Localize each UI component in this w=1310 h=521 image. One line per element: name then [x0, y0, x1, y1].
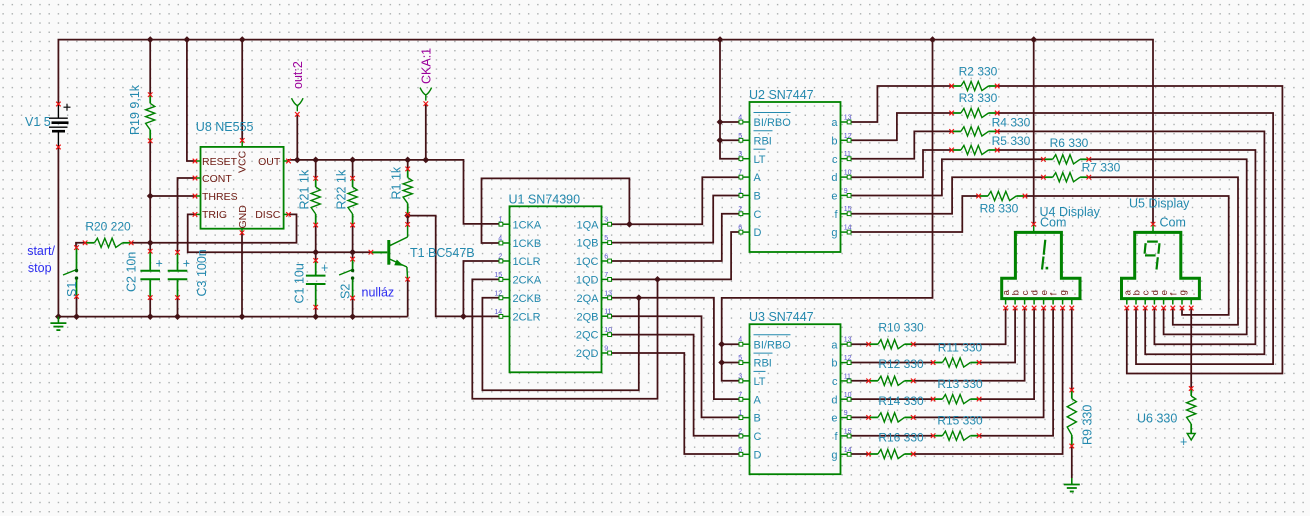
- svg-text:U5 Display: U5 Display: [1129, 197, 1190, 211]
- junction gnd-S2: [350, 314, 355, 319]
- svg-text:V1 5: V1 5: [25, 115, 51, 129]
- svg-text:start/: start/: [27, 244, 55, 258]
- svg-text:2CKA: 2CKA: [513, 275, 542, 287]
- svg-text:9: 9: [604, 346, 608, 353]
- junction gnd-U8: [239, 314, 244, 319]
- svg-text:R21 1k: R21 1k: [298, 169, 312, 209]
- svg-text:2QB: 2QB: [576, 311, 598, 323]
- junction OUT-R1: [405, 157, 410, 162]
- svg-text:R9 330: R9 330: [1081, 405, 1095, 445]
- wire TRIG net: [188, 214, 371, 260]
- svg-text:R15 330: R15 330: [937, 414, 983, 428]
- svg-text:1: 1: [738, 410, 742, 417]
- counter U1 SN74390: [494, 192, 612, 372]
- svg-text:C2 10n: C2 10n: [125, 252, 139, 292]
- junction rail-RESET: [184, 37, 189, 42]
- svg-text:15: 15: [844, 206, 852, 213]
- svg-text:3: 3: [738, 373, 742, 380]
- wire U5 dp to U6: [1190, 307, 1192, 388]
- svg-text:13: 13: [604, 290, 612, 297]
- svg-text:12: 12: [844, 355, 852, 362]
- resistor R7: [1041, 161, 1121, 182]
- svg-text:S2: S2: [339, 284, 353, 299]
- svg-text:2QD: 2QD: [576, 348, 599, 360]
- svg-text:S1: S1: [65, 282, 79, 297]
- wire 1QD net (to U2.D and 2CKA): [472, 232, 739, 399]
- junction 2QA: [636, 295, 641, 300]
- svg-text:LT: LT: [754, 154, 766, 166]
- resistor R12: [866, 357, 924, 385]
- svg-text:U1 SN74390: U1 SN74390: [509, 192, 581, 206]
- svg-text:R7 330: R7 330: [1082, 161, 1121, 175]
- junction 1QD: [655, 277, 660, 282]
- svg-text:e: e: [831, 191, 837, 203]
- wire R9 to ground: [1071, 446, 1073, 478]
- svg-text:12: 12: [494, 290, 502, 297]
- svg-text:U2 SN7447: U2 SN7447: [749, 88, 814, 102]
- svg-text:B: B: [754, 191, 761, 203]
- svg-text:R19 9,1k: R19 9,1k: [128, 84, 142, 135]
- switch S2: [339, 257, 355, 301]
- svg-text:13: 13: [844, 115, 852, 122]
- svg-text:VCC: VCC: [237, 150, 249, 173]
- svg-text:c: c: [832, 154, 838, 166]
- junction gnd-C2: [148, 314, 153, 319]
- svg-text:THRES: THRES: [202, 191, 238, 203]
- op-amp U8 NE555 timer: [193, 120, 291, 235]
- junction CLR: [461, 314, 466, 319]
- svg-text:DISC: DISC: [255, 209, 281, 221]
- svg-text:C: C: [754, 431, 762, 443]
- svg-text:1CKB: 1CKB: [513, 238, 542, 250]
- ground main ground: [50, 317, 66, 331]
- svg-text:C: C: [754, 209, 762, 221]
- junction 1QA: [627, 222, 632, 227]
- svg-text:+: +: [321, 261, 328, 275]
- svg-text:12: 12: [844, 133, 852, 140]
- svg-text:R10 330: R10 330: [878, 321, 924, 335]
- svg-text:.: .: [1067, 293, 1078, 296]
- resistor R14: [866, 394, 924, 422]
- svg-text:R20 220: R20 220: [85, 220, 131, 234]
- junction U3-RBI: [719, 360, 724, 365]
- svg-text:R6 330: R6 330: [1050, 136, 1089, 150]
- svg-text:CKA:1: CKA:1: [419, 48, 433, 84]
- resistor R21: [298, 169, 321, 227]
- wire U3 segment b net: [851, 308, 1015, 362]
- svg-text:b: b: [831, 358, 837, 370]
- wire S1 to R20 net: [76, 243, 85, 248]
- junction THRES-R20: [148, 240, 153, 245]
- decoder U2 (tens decoder): [738, 88, 851, 252]
- svg-text:TRIG: TRIG: [202, 209, 227, 221]
- svg-text:2CLR: 2CLR: [513, 312, 541, 324]
- svg-text:c: c: [832, 376, 838, 388]
- wire THRES/DISC net: [131, 141, 296, 251]
- wire 2QC net to U3.C: [611, 335, 739, 436]
- net jumper out:2: [291, 61, 305, 116]
- svg-text:d: d: [831, 394, 837, 406]
- wire U2 segment d net: [851, 150, 1255, 344]
- capacitor C3: [168, 249, 209, 300]
- display U4 (digit 1.): [1001, 205, 1101, 310]
- svg-text:2: 2: [738, 428, 742, 435]
- svg-text:OUT: OUT: [258, 156, 281, 168]
- junction rail-R19: [148, 37, 153, 42]
- svg-text:14: 14: [844, 447, 852, 454]
- svg-text:e: e: [831, 413, 837, 425]
- svg-text:C3 100n: C3 100n: [195, 249, 209, 296]
- junction U2-BIRBO: [717, 119, 722, 124]
- ground R9 ground: [1064, 478, 1080, 492]
- wire U4 dp to R9: [1071, 308, 1073, 390]
- wire U3 segment g net: [851, 308, 1063, 454]
- wire U2 segment c net: [851, 131, 1264, 354]
- wire U2 segment b net: [851, 113, 1273, 364]
- svg-text:R22 1k: R22 1k: [334, 169, 348, 209]
- svg-text:b: b: [831, 135, 837, 147]
- junction rail-U3: [930, 37, 935, 42]
- svg-text:g: g: [831, 227, 837, 239]
- svg-text:LT: LT: [754, 376, 766, 388]
- svg-text:1QB: 1QB: [576, 238, 598, 250]
- wire U3 segment e net: [851, 308, 1044, 417]
- capacitor C1: [293, 258, 329, 309]
- svg-text:11: 11: [604, 309, 611, 316]
- battery V1: [25, 102, 71, 150]
- svg-text:1: 1: [738, 188, 742, 195]
- wire OUT net (555 output to 1CKA): [288, 104, 499, 224]
- wire U2 segment a net: [851, 86, 1282, 374]
- switch S1: [63, 245, 79, 298]
- svg-text:R11 330: R11 330: [938, 340, 983, 354]
- svg-text:Com: Com: [1160, 215, 1186, 229]
- transistor T1: [369, 222, 475, 281]
- svg-text:1: 1: [498, 217, 502, 224]
- svg-text:RESET: RESET: [202, 156, 238, 168]
- resistor R19: [128, 84, 155, 143]
- resistor R15: [931, 414, 983, 441]
- svg-text:g: g: [831, 449, 837, 461]
- svg-text:1CLR: 1CLR: [513, 256, 541, 268]
- wire U2 segment f net: [851, 177, 1238, 325]
- svg-text:R8 330: R8 330: [980, 202, 1019, 216]
- wire ground rail net: [58, 147, 407, 317]
- wire U2 segment g net: [851, 196, 1229, 315]
- wire 2QB net to U3.B: [611, 316, 739, 417]
- svg-text:6: 6: [604, 254, 608, 261]
- resistor R20: [83, 220, 134, 248]
- wire VCC +5V rail net: [58, 40, 1153, 381]
- svg-text:2: 2: [738, 206, 742, 213]
- svg-text:1QD: 1QD: [576, 275, 599, 287]
- svg-text:R12 330: R12 330: [878, 357, 924, 371]
- wire U2 segment e net: [851, 159, 1247, 334]
- label start/stop: [27, 244, 55, 275]
- wire 1QB net to U2.B: [611, 196, 739, 243]
- svg-text:3: 3: [604, 217, 608, 224]
- svg-text:1CKA: 1CKA: [513, 219, 542, 231]
- svg-text:4: 4: [498, 236, 502, 243]
- svg-text:T1 BC547B: T1 BC547B: [410, 246, 475, 260]
- junction rail-VCC-U8: [240, 37, 245, 42]
- svg-text:2QA: 2QA: [576, 293, 599, 305]
- svg-text:5: 5: [604, 235, 608, 242]
- svg-text:9: 9: [844, 410, 848, 417]
- svg-text:A: A: [754, 394, 762, 406]
- junction rail-U2: [717, 37, 722, 42]
- resistor R22: [334, 169, 357, 227]
- svg-text:1QA: 1QA: [576, 219, 599, 231]
- resistor R6: [1041, 136, 1091, 164]
- svg-text:2QC: 2QC: [576, 330, 599, 342]
- resistor R2: [949, 65, 999, 91]
- resistor R1: [390, 166, 413, 217]
- wire 2QD net to U3.D: [611, 353, 739, 454]
- svg-text:7: 7: [738, 170, 742, 177]
- svg-text:10: 10: [604, 327, 612, 334]
- resistor R8: [976, 191, 1027, 215]
- svg-text:R13 330: R13 330: [937, 377, 983, 391]
- junction TRIG-S2: [350, 250, 355, 255]
- junction TRIG-C1: [313, 250, 318, 255]
- wire 1QC net to U2.C: [611, 214, 739, 261]
- svg-text:U3 SN7447: U3 SN7447: [749, 310, 814, 324]
- svg-text:U8 NE555: U8 NE555: [196, 120, 254, 134]
- svg-text:1QC: 1QC: [576, 256, 599, 268]
- wire U3 segment d net: [851, 308, 1034, 399]
- resistor R11: [931, 340, 983, 367]
- svg-text:C1 10u: C1 10u: [293, 263, 307, 303]
- junction OUT-CKA1: [423, 157, 428, 162]
- svg-text:14: 14: [494, 309, 502, 316]
- svg-text:R2 330: R2 330: [959, 65, 998, 79]
- svg-text:6: 6: [738, 447, 742, 454]
- svg-text:R16 330: R16 330: [878, 430, 924, 444]
- junction gnd-C3: [175, 314, 180, 319]
- svg-text:4: 4: [738, 115, 742, 122]
- wire U3 segment f net: [851, 308, 1053, 435]
- resistor R3: [949, 91, 999, 117]
- svg-text:stop: stop: [28, 261, 52, 275]
- svg-text:CONT: CONT: [202, 173, 232, 185]
- junction OUT-R22: [350, 157, 355, 162]
- svg-text:15: 15: [494, 272, 502, 279]
- resistor R4: [949, 116, 1030, 137]
- svg-text:11: 11: [844, 373, 851, 380]
- resistor R9: [1067, 388, 1094, 449]
- svg-text:.: .: [1187, 293, 1198, 296]
- resistor R13: [931, 377, 983, 404]
- resistor U6 with +V arrow: [1137, 386, 1196, 449]
- junction U2-RBI: [717, 138, 722, 143]
- svg-text:R14 330: R14 330: [878, 394, 924, 408]
- svg-text:15: 15: [844, 428, 852, 435]
- svg-text:nulláz: nulláz: [362, 286, 395, 300]
- svg-text:2: 2: [498, 254, 502, 261]
- svg-text:RBI: RBI: [754, 135, 772, 147]
- svg-text:A: A: [754, 172, 762, 184]
- resistor R10: [866, 321, 924, 349]
- wire U3 segment c net: [851, 308, 1025, 380]
- wire 2QA net (to U3.A and 2CKB): [482, 298, 739, 399]
- svg-text:5: 5: [738, 133, 742, 140]
- wire U3 segment a net: [851, 308, 1006, 344]
- svg-text:+: +: [156, 257, 163, 271]
- svg-text:14: 14: [844, 225, 852, 232]
- svg-text:5: 5: [738, 355, 742, 362]
- junction OUT-out2: [295, 157, 300, 162]
- svg-text:7: 7: [738, 392, 742, 399]
- svg-text:9: 9: [844, 188, 848, 195]
- capacitor C2: [125, 249, 163, 300]
- svg-text:out:2: out:2: [291, 61, 305, 89]
- resistor R5: [949, 134, 1030, 154]
- junction rail-U4com: [1031, 37, 1036, 42]
- svg-text:+: +: [183, 257, 190, 271]
- svg-text:D: D: [754, 449, 762, 461]
- display U5 (digit 9): [1122, 197, 1200, 311]
- svg-text:10: 10: [844, 170, 852, 177]
- junction gnd-C1: [313, 314, 318, 319]
- svg-text:BI/RBO: BI/RBO: [754, 117, 792, 129]
- svg-text:10: 10: [844, 392, 852, 399]
- svg-text:2CKB: 2CKB: [513, 293, 542, 305]
- wire CONT net: [178, 178, 196, 252]
- svg-text:a: a: [831, 339, 838, 351]
- junction gnd-battery: [56, 314, 61, 319]
- svg-text:R3 330: R3 330: [959, 91, 998, 105]
- junction THRES: [148, 193, 153, 198]
- svg-text:GND: GND: [237, 205, 249, 229]
- svg-text:R1 1k: R1 1k: [390, 166, 404, 199]
- svg-text:a: a: [831, 117, 838, 129]
- svg-text:R4 330: R4 330: [992, 116, 1031, 130]
- decoder U3 (ones decoder): [738, 310, 851, 474]
- svg-text:BI/RBO: BI/RBO: [754, 339, 792, 351]
- svg-text:R5 330: R5 330: [992, 134, 1031, 148]
- svg-text:d: d: [831, 172, 837, 184]
- svg-text:3: 3: [738, 151, 742, 158]
- svg-text:11: 11: [844, 151, 851, 158]
- svg-text:B: B: [754, 413, 761, 425]
- wire 1QA net (to 1CKB and U2.A): [482, 177, 740, 243]
- svg-text:7: 7: [604, 272, 608, 279]
- junction gnd-S1: [74, 314, 79, 319]
- junction R1-T1: [405, 213, 410, 218]
- svg-text:RBI: RBI: [754, 358, 772, 370]
- svg-text:13: 13: [844, 337, 852, 344]
- svg-text:4: 4: [738, 337, 742, 344]
- wire R1/T1-collector/CLR net: [408, 216, 499, 317]
- junction OUT-R21: [313, 157, 318, 162]
- svg-text:D: D: [754, 227, 762, 239]
- net jumper CKA:1: [419, 48, 433, 106]
- svg-text:U6 330: U6 330: [1137, 412, 1177, 426]
- svg-text:+: +: [1180, 435, 1187, 449]
- junction U3-BIRBO: [719, 342, 724, 347]
- svg-text:6: 6: [738, 225, 742, 232]
- resistor R16: [866, 430, 924, 458]
- svg-text:Com: Com: [1040, 215, 1066, 229]
